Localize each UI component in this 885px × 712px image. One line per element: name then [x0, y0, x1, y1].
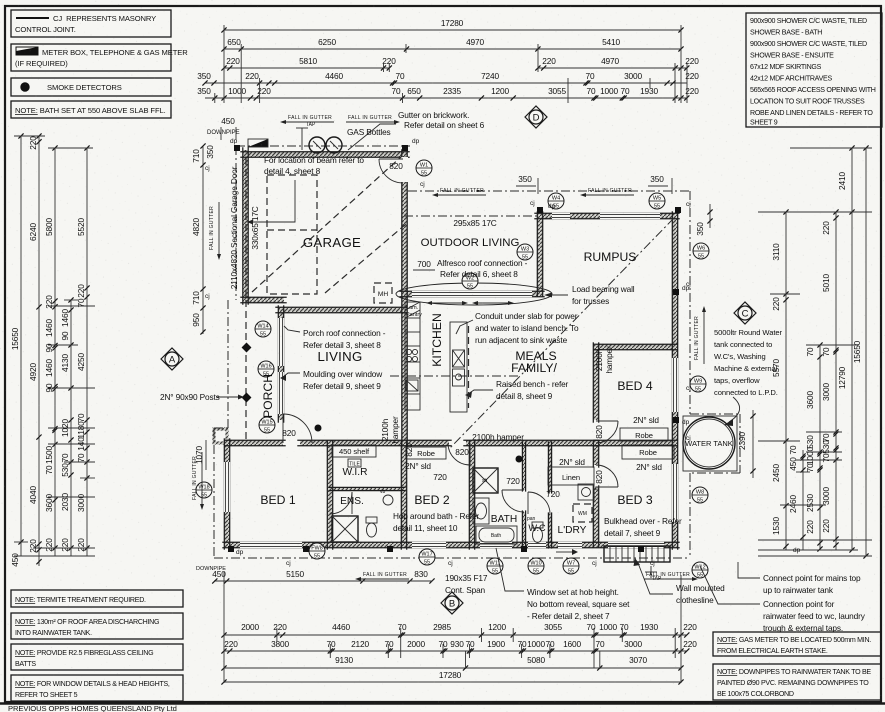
wir tile note [348, 459, 361, 467]
note box: ceiling batts [11, 644, 183, 670]
downpipe mark [537, 207, 543, 213]
window marker W16/55 [258, 361, 274, 377]
left overall dimension 15650 [20, 136, 22, 556]
section marker C [734, 302, 756, 324]
garage beam location dashed box [267, 175, 317, 294]
window bath bottom wall [480, 542, 512, 548]
left dimension chain 5520/220/4250/70/1180/140/3000/220 [86, 148, 88, 556]
roofline east lower [689, 473, 691, 558]
wall wir ens divider [330, 487, 404, 490]
wall garage top [243, 152, 407, 157]
wall bath wc divider upper [522, 443, 525, 490]
note box: termite [11, 590, 183, 607]
porch posts [242, 343, 252, 353]
right dimension chain 220/5010/70/3000/70/530/70/3000/220 [835, 212, 837, 550]
roofline east upper [689, 191, 691, 414]
linen cupboard [548, 467, 594, 485]
window bed1 bottom wall [240, 542, 302, 548]
door wc 720 [528, 492, 550, 514]
ens toilet [366, 517, 377, 523]
wall house bottom [225, 542, 677, 547]
bottom overall dimension 17280 [224, 681, 681, 683]
left dimension chain 90/4130/1020/530/2030/220 [70, 300, 72, 556]
wall bed zone top y443 segment 3 [466, 440, 596, 445]
garage sectional door dashed line [245, 158, 247, 300]
window marker W17/55 [419, 549, 435, 565]
wall meals east / bed4 west upper [593, 345, 598, 420]
roofline north of outdoor living and rumpus [408, 190, 690, 192]
water tank enclosure [683, 416, 737, 471]
bath tub [476, 526, 517, 544]
bath shower [473, 468, 498, 493]
garage roof diagonal 2 [325, 224, 406, 293]
meter box wedge [248, 139, 268, 147]
ens basin [383, 495, 393, 505]
window marker W2/55 [462, 273, 478, 289]
window bed4 east wall [672, 358, 678, 412]
roofline garage top [236, 145, 410, 147]
right dimension chain 3110/220/5570/2450/1530 [785, 212, 787, 550]
rumpus to meals dash line at wall line [404, 215, 537, 217]
window marker W18/55 [196, 482, 212, 498]
window living west wall lower [278, 372, 284, 414]
window marker W10/55 [528, 558, 544, 574]
window marker W9/55 [690, 376, 706, 392]
wall wc ldry divider lower [548, 514, 551, 547]
ens shower [332, 516, 358, 542]
wall bed2 west [401, 443, 406, 547]
top dimension chain row 17280 [224, 29, 681, 31]
legend box: meter box [11, 44, 171, 71]
roofline porch bottom jog [214, 427, 228, 429]
window marker W15/55 [259, 417, 275, 433]
door hall 820 [448, 443, 470, 465]
section marker B [441, 592, 463, 614]
wall bed zone top y443 segment 2 [300, 440, 449, 445]
wall rumpus west [537, 214, 542, 294]
right extension lines [790, 147, 872, 149]
door garage rear 820 [379, 159, 403, 183]
water tank [683, 417, 735, 469]
left dimension chain 5800/220/1460/90/1460/90/... [54, 148, 56, 556]
wall wir ens west [327, 443, 332, 547]
roofline bed1 west [213, 428, 215, 558]
window ldry bottom wall [558, 542, 582, 548]
downpipe mark [673, 417, 679, 423]
roofline jog around water tank bottom [690, 472, 740, 474]
wall bed3 west lower [593, 488, 598, 545]
window bed2 bottom wall [412, 542, 446, 548]
downpipe mark [234, 145, 240, 151]
window marker W5/55 [649, 193, 665, 209]
garage roof diagonal 1 [252, 156, 402, 292]
garage side dims 710/4820/710/950 [202, 146, 204, 334]
door bed3 820 [596, 465, 618, 487]
opening garage rear door [401, 157, 408, 182]
wir shelf [332, 445, 376, 457]
note box: bath set [11, 101, 171, 118]
window bed1 west wall [224, 462, 230, 512]
bottom scan edge line [0, 702, 885, 704]
window marker W6/55 [693, 243, 709, 259]
smoke detector bath hall [516, 456, 523, 463]
kitchen hotplates [406, 349, 411, 354]
door bath 720 [502, 490, 524, 512]
pantry shelf lines [405, 302, 420, 310]
rumpus load bearing diagonal [450, 218, 674, 448]
window marker W12/55 [692, 562, 708, 578]
roofline garage west [235, 146, 237, 300]
wall outdoor living south [402, 291, 542, 296]
door ldry external arrow [556, 551, 572, 553]
right dimension chain 2410/12790 [851, 148, 853, 550]
kitchen sink [406, 380, 418, 391]
note box: gas meter [713, 632, 881, 656]
ldry washing machine [573, 504, 592, 522]
wall bath wc divider lower [522, 512, 525, 547]
wc toilet [532, 522, 543, 528]
wall bed3 bed4 divider [596, 440, 675, 445]
top dimension chain row 220/5810/220 ... 220/4970/220 [224, 67, 389, 69]
note box: roof area discharge [11, 613, 183, 639]
top-right specification note box [746, 13, 882, 127]
right dimension chain 70/3600/530/1000/70/2530/220 [819, 345, 821, 550]
door porch entry 820 [283, 414, 312, 443]
wall bath west [469, 443, 474, 547]
right dimension chain 70/450/2460 [802, 450, 804, 550]
clothesline [604, 546, 670, 562]
tap symbol top [301, 128, 303, 150]
downpipe mark [675, 207, 681, 213]
wall garage bottom left segment [243, 297, 284, 302]
legend box: smoke detectors [11, 78, 171, 96]
downpipe mark [387, 546, 393, 552]
sliding door arrows outdoor living [432, 302, 462, 304]
top dimension chain row 350/220/4460/70/7240/70/3000/220 [205, 82, 687, 84]
ldry tub [578, 484, 594, 500]
bath vanity [473, 498, 489, 524]
bottom dimension chain row C [224, 650, 687, 652]
downpipe mark [673, 289, 679, 295]
window wc bottom wall [528, 542, 546, 548]
sliding door outdoor living south [412, 291, 532, 297]
island bench [450, 322, 467, 412]
top dimension extension lines [223, 25, 225, 103]
MFI dashed box in garage [374, 283, 392, 303]
roofline jog around water tank top [690, 413, 740, 415]
door ens 720 [330, 492, 352, 514]
downpipe mark [638, 546, 644, 552]
top dimension chain row 350/1000/220/650/2335/1200/3055/70/1000/70/1930/220 [205, 97, 687, 99]
right water tank dimension 2390 [752, 410, 754, 478]
window marker W7/55 [563, 558, 579, 574]
tap at clothesline [650, 566, 652, 578]
note box: downpipes [713, 664, 881, 700]
dim 1070 bed1 [205, 440, 207, 470]
left extension lines [14, 135, 45, 137]
window marker W8/55 [692, 487, 708, 503]
wall porch right / living west [278, 308, 283, 420]
window living west wall upper [278, 318, 284, 366]
right overall dimension 15650 [865, 148, 867, 556]
kitchen sink waste dash line [390, 375, 520, 377]
roofline porch west [227, 300, 229, 428]
revision cloud ellipse over outdoor living wall [396, 283, 552, 305]
gas bottles [309, 137, 325, 153]
roofline jog around water tank east [739, 414, 741, 473]
robe bed2 [406, 447, 446, 459]
section marker A [161, 348, 183, 370]
window marker W4/55 [548, 193, 564, 209]
window marker W3/55 [517, 244, 533, 260]
window bed3 east wall [672, 464, 678, 522]
window marker W11/55 [487, 558, 503, 574]
wall living top [278, 307, 404, 312]
robe bed4 pair [620, 428, 668, 441]
kitchen bench [405, 302, 420, 410]
top dimension chain row 650/6250/4970/5410 [224, 48, 681, 50]
wall return step at bed1 north-west [214, 429, 227, 443]
wall bed zone top y443 segment 1 [227, 440, 283, 445]
downpipe mark [521, 546, 527, 552]
downpipe mark [303, 546, 309, 552]
window marker W1/55 [416, 160, 432, 176]
wall garage left [243, 150, 248, 302]
window bed3 bottom wall [608, 542, 664, 548]
downpipe mark [402, 145, 408, 151]
wall bed4 north [596, 344, 675, 349]
robe bed3 [622, 445, 674, 459]
wall wc ldry divider upper [548, 443, 551, 492]
wall rumpus top [537, 213, 677, 218]
wall garage right / kitchen left [402, 152, 407, 445]
downpipe mark [228, 546, 234, 552]
window rumpus top wall [552, 213, 570, 219]
wall house east [672, 214, 677, 547]
roofline house bottom [214, 557, 690, 559]
bottom dimension chain row 9130/5080/3070 [224, 667, 681, 669]
note box: window details [11, 675, 183, 701]
right dimension 350 at rumpus top right [709, 204, 711, 228]
bottom extension lines [223, 572, 225, 683]
section marker D [525, 106, 547, 128]
wall bed3 west middle [593, 443, 598, 465]
door bed4 820 [596, 421, 618, 443]
legend box: CJ masonry control joint [11, 10, 171, 37]
window marker W14/55 [255, 321, 271, 337]
left dimension chain 220/6240/4920/4040/220/450 [38, 136, 40, 566]
bottom sub-plate dimension row 450/5150/830 [214, 580, 310, 582]
porch post line dashed [245, 300, 247, 443]
smoke detector hall [315, 425, 322, 432]
bottom dimension chain row B [224, 634, 687, 636]
window marker FW8/55 [309, 543, 325, 559]
wall bed1 west [224, 441, 229, 547]
